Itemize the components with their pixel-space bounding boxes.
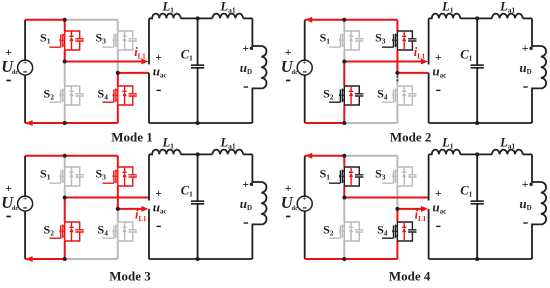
node: C1 top junction [196,152,200,156]
body diode of S1 (Mode 2) [349,31,353,50]
wire: right vertical above load [532,18,541,46]
transistor S2 (Mode 1) (MOSFET body, loop, snubber cap) [49,86,83,105]
wire: filter bottom rail [429,258,532,260]
body diode of S1 (Mode 3) [69,167,73,186]
svg-text:dc: dc [12,69,19,76]
capacitor C1 [476,18,478,123]
svg-text:+: + [435,52,442,64]
body diode of S3 (Mode 1) [123,31,127,50]
svg-text:L1: L1 [162,0,175,15]
node: C1 bottom junction [196,121,200,125]
body diode of S1 (Mode 1) [69,31,73,50]
voltage source Udc (circle symbol) [297,60,312,75]
svg-text:S4: S4 [377,223,388,238]
svg-text:L1: L1 [162,136,175,151]
svg-text:S1: S1 [320,30,331,45]
wire: left rail lower (source - lead) [24,75,26,123]
wire: left leg, S1 to node A [64,50,66,62]
wire: right vertical above load [252,18,261,46]
polarity dot of u_D winding [250,183,253,186]
svg-text:S3: S3 [375,30,386,45]
svg-text:iL1: iL1 [134,45,146,60]
node A (left leg midpoint) [63,196,67,200]
wire: right leg, top rail to S3 [117,156,119,167]
wire: top rail left segment [305,19,345,21]
svg-text:uac: uac [432,64,446,80]
svg-text:+: + [23,58,27,66]
body diode of S2 (Mode 3) [69,222,73,241]
wire: node B to filter with current arrow iL1 [397,208,421,210]
wire: right leg, node B to S4 [117,209,119,222]
svg-text:+: + [435,188,442,200]
node A (left leg midpoint) [342,196,346,200]
node B (right leg midpoint) [116,207,120,211]
wire: filter port upper segment (u_ac +) [428,18,430,64]
svg-text:S1: S1 [320,166,331,181]
svg-text:+: + [155,52,162,64]
wire: bottom rail left segment [305,258,345,260]
arrow head iL1 [421,206,428,212]
wire: left leg, top rail to S1 [64,20,66,31]
wire: right leg, S4 to bottom rail [117,241,119,259]
wire: top rail right of La1 [243,17,252,19]
svg-text:S2: S2 [323,223,334,238]
svg-text:+: + [522,179,529,191]
wire: top rail between L1 and La1 [460,153,492,155]
svg-text:L1: L1 [441,0,454,15]
svg-text:La1: La1 [220,0,236,15]
transistor S3 (Mode 4) (MOSFET body, loop, snubber cap) [382,167,416,186]
current arrow into source - (bottom rail) [26,120,33,126]
svg-text:S3: S3 [96,166,107,181]
svg-text:dc: dc [12,205,19,212]
wire: left leg, S1 to node A [343,50,345,62]
wire: right leg, node B to S4 [396,209,398,222]
transistor S4 (Mode 2) (MOSFET body, loop, snubber cap) [382,86,416,105]
transistor S1 (Mode 3) (MOSFET body, loop, snubber cap) [49,167,83,186]
wire: right leg, S4 to bottom rail [396,105,398,123]
node A (left leg midpoint) [63,60,67,64]
svg-text:C1: C1 [460,47,472,62]
node: C1 top junction [475,152,479,156]
wire: left leg, node A to S2 [64,198,66,223]
transistor S4 (Mode 3) (MOSFET body, loop, snubber cap) [103,222,137,241]
inductor La1 [492,14,523,19]
wire: right vertical below load [252,88,261,123]
wire: left rail upper (source + lead) [304,20,306,60]
wire: right leg, S3 to node B [396,50,398,73]
transistor S1 (Mode 4) (MOSFET body, loop, snubber cap) [329,167,363,186]
wire: filter port lower segment (u_ac -) [148,209,150,259]
body diode of S2 (Mode 4) [349,222,353,241]
body diode of S3 (Mode 2) [402,31,406,50]
wire: node A to filter upper port [344,197,428,199]
svg-text:uD: uD [519,196,531,212]
svg-text:S3: S3 [96,30,107,45]
voltage source Udc (circle symbol) [18,60,33,75]
wire: top rail between L1 and La1 [181,17,213,19]
node: C1 top junction [475,16,479,20]
wire: right vertical below load [252,224,261,259]
wire: right leg, top rail to S3 [396,156,398,167]
wire: node A to filter with current arrow iL1 [344,61,421,63]
wire: bottom rail right segment [65,258,118,260]
wire: top rail left segment [25,19,65,21]
body diode of S4 (Mode 3) [123,222,127,241]
svg-text:La1: La1 [499,0,515,15]
current arrow into source + (top rail) [305,153,312,159]
wire: right leg, S4 to bottom rail [396,241,398,259]
wire: top rail right segment [65,19,118,21]
node: top rail / left leg junction [63,18,67,22]
wire: right leg, top rail to S3 [396,20,398,31]
wire: filter port upper segment (u_ac +) [148,18,150,64]
body diode of S1 (Mode 4) [349,167,353,186]
node B (right leg midpoint) [395,207,399,211]
node: top rail / left leg junction [342,154,346,158]
inductor La1 [212,150,243,155]
svg-text:Mode 1: Mode 1 [111,130,153,145]
svg-text:dc: dc [292,69,299,76]
svg-text:S2: S2 [44,87,55,102]
node A (left leg midpoint) [342,60,346,64]
wire: filter bottom rail [429,122,532,124]
wire: top rail between L1 and La1 [460,17,492,19]
wire: filter port lower segment (u_ac -) [148,73,150,123]
wire: left leg, S2 to bottom rail [343,105,345,123]
wire: left leg, S2 to bottom rail [64,241,66,259]
capacitor C1 [197,18,199,123]
wire: top rail right segment [344,155,397,157]
wire: right leg, S4 to bottom rail [117,105,119,123]
svg-text:uD: uD [240,60,252,76]
svg-text:S2: S2 [323,87,334,102]
wire: left leg, node A to S2 [64,62,66,87]
transistor S2 (Mode 4) (MOSFET body, loop, snubber cap) [329,222,363,241]
wire: left leg, top rail to S1 [64,156,66,167]
svg-text:C1: C1 [460,183,472,198]
transistor S3 (Mode 3) (MOSFET body, loop, snubber cap) [103,167,137,186]
body diode of S4 (Mode 1) [123,86,127,105]
body diode of S2 (Mode 1) [69,86,73,105]
wire: bottom rail right segment [65,122,118,124]
svg-text:+: + [303,194,307,202]
wire: filter port lower segment (u_ac -) [428,209,430,259]
voltage source Udc (circle symbol) [18,196,33,211]
wire: bottom rail left segment [25,122,65,124]
transistor S1 (Mode 1) (MOSFET body, loop, snubber cap) [49,31,83,50]
node: top rail / left leg junction [342,18,346,22]
wire: filter bottom rail [149,122,252,124]
node: C1 bottom junction [475,257,479,261]
node: bottom rail / left leg junction [342,121,346,125]
wire: right leg, S3 to node B [396,186,398,209]
wire: right vertical below load [532,88,541,123]
transistor S4 (Mode 4) (MOSFET body, loop, snubber cap) [382,222,416,241]
transistor S4 (Mode 1) (MOSFET body, loop, snubber cap) [103,86,137,105]
svg-text:C1: C1 [181,47,193,62]
wire: top rail right segment [65,155,118,157]
svg-text:+: + [303,58,307,66]
wire: left leg, S1 to node A [343,186,345,198]
wire: node B to filter with current arrow iL1 [118,208,142,210]
node: bottom rail / left leg junction [63,121,67,125]
body diode of S3 (Mode 4) [402,167,406,186]
wire: left rail upper (source + lead) [304,156,306,196]
svg-text:S4: S4 [377,87,388,102]
wire: left leg, S2 to bottom rail [64,105,66,123]
svg-text:C1: C1 [181,183,193,198]
node: C1 bottom junction [196,257,200,261]
load winding u_D (coil) [261,182,266,224]
transistor S2 (Mode 3) (MOSFET body, loop, snubber cap) [49,222,83,241]
current arrow into source - (bottom rail) [26,256,33,262]
current arrow into source + (top rail) [305,17,312,23]
wire: top rail right segment [344,19,397,21]
wire: node A to filter upper port [65,197,149,199]
inductor La1 [492,150,523,155]
body diode of S4 (Mode 4) [402,222,406,241]
wire: left leg, S1 to node A [64,186,66,198]
wire: left rail lower (source - lead) [24,211,26,259]
transistor S1 (Mode 2) (MOSFET body, loop, snubber cap) [329,31,363,50]
svg-text:L1: L1 [441,136,454,151]
wire: top rail right of La1 [523,153,532,155]
svg-text:iL1: iL1 [414,45,426,60]
node B (right leg midpoint) [116,71,120,75]
wire: bottom rail right segment [344,258,397,260]
wire: bottom rail left segment [25,258,65,260]
inductor L1 [429,14,461,19]
transistor S3 (Mode 2) (MOSFET body, loop, snubber cap) [382,31,416,50]
arrow head iL1 [141,59,148,65]
svg-text:S3: S3 [375,166,386,181]
wire: right leg, S3 to node B [117,50,119,73]
voltage source Udc (circle symbol) [297,196,312,211]
wire: top rail right of La1 [523,17,532,19]
svg-text:uac: uac [432,200,446,216]
body diode of S3 (Mode 3) [123,167,127,186]
transistor S3 (Mode 1) (MOSFET body, loop, snubber cap) [103,31,137,50]
wire: filter port lower segment (u_ac -) [428,73,430,123]
wire: right vertical below load [532,224,541,259]
wire: left leg, S2 to bottom rail [343,241,345,259]
svg-text:La1: La1 [220,136,236,151]
wire: right leg, top rail to S3 [117,20,119,31]
load winding u_D (coil) [541,46,546,88]
polarity dot of u_D winding [529,47,532,50]
svg-text:+: + [522,43,529,55]
wire: node B to filter lower port [397,72,428,74]
wire: top rail left segment [305,155,345,157]
wire: left leg, top rail to S1 [343,20,345,31]
load winding u_D (coil) [541,182,546,224]
node: bottom rail / left leg junction [63,257,67,261]
inductor L1 [149,14,181,19]
wire: left rail lower (source - lead) [304,75,306,123]
wire: top rail left segment [25,155,65,157]
inductor L1 [149,150,181,155]
svg-text:uD: uD [519,60,531,76]
load winding u_D (coil) [261,46,266,88]
svg-text:dc: dc [292,205,299,212]
svg-text:uac: uac [153,200,167,216]
inductor L1 [429,150,461,155]
svg-text:+: + [23,194,27,202]
node B (right leg midpoint) [395,71,399,75]
transistor S2 (Mode 2) (MOSFET body, loop, snubber cap) [329,86,363,105]
wire: right leg, S3 to node B [117,186,119,209]
wire: left leg, top rail to S1 [343,156,345,167]
wire: node B to filter lower port [118,72,149,74]
wire: bottom rail right segment [344,122,397,124]
svg-text:La1: La1 [499,136,515,151]
wire: left leg, node A to S2 [343,198,345,223]
svg-text:+: + [242,43,249,55]
svg-text:uD: uD [240,196,252,212]
wire: right leg, node B to S4 [117,73,119,86]
polarity dot of u_D winding [529,183,532,186]
inductor La1 [212,14,243,19]
wire: left rail upper (source + lead) [24,156,26,196]
wire: filter port upper segment (u_ac +) [148,154,150,200]
wire: bottom rail left segment [305,122,345,124]
svg-text:S1: S1 [40,166,51,181]
svg-text:S4: S4 [98,223,109,238]
capacitor C1 [197,154,199,259]
wire: right leg, node B to S4 [396,73,398,86]
svg-text:S2: S2 [44,223,55,238]
wire: top rail between L1 and La1 [181,153,213,155]
wire: filter bottom rail [149,258,252,260]
node: C1 bottom junction [475,121,479,125]
polarity dot of u_D winding [250,47,253,50]
body diode of S4 (Mode 2) [402,86,406,105]
svg-text:+: + [155,188,162,200]
node: top rail / left leg junction [63,154,67,158]
wire: left leg, node A to S2 [343,62,345,87]
wire: left rail lower (source - lead) [304,211,306,259]
wire: top rail right of La1 [243,153,252,155]
node: C1 top junction [196,16,200,20]
dashed stub below node B [396,76,398,82]
svg-text:Mode 2: Mode 2 [390,130,432,145]
svg-text:Mode 3: Mode 3 [109,268,151,283]
wire: node A to filter with current arrow iL1 [65,61,142,63]
wire: filter port upper segment (u_ac +) [428,154,430,200]
svg-text:+: + [242,179,249,191]
svg-text:S1: S1 [40,30,51,45]
wire: right vertical above load [252,154,261,182]
wire: right vertical above load [532,154,541,182]
body diode of S2 (Mode 2) [349,86,353,105]
arrow head iL1 [421,59,428,65]
svg-text:uac: uac [153,64,167,80]
capacitor C1 [476,154,478,259]
wire: left rail upper (source + lead) [24,20,26,60]
svg-text:S4: S4 [98,87,109,102]
node: bottom rail / left leg junction [342,257,346,261]
svg-text:Mode 4: Mode 4 [389,268,431,283]
arrow head iL1 [141,206,148,212]
